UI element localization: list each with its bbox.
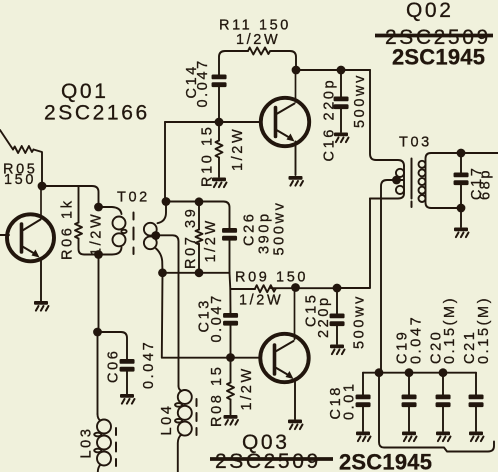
ground T03 secondary (454, 228, 469, 238)
svg-text:R07 39: R07 39 (183, 207, 199, 269)
node T02 primary bottom (94, 250, 103, 259)
resistor R11 (248, 48, 270, 55)
svg-text:R09 150: R09 150 (235, 270, 308, 286)
inductor L03 (98, 414, 101, 421)
node C15 (333, 284, 342, 293)
svg-text:1/2W: 1/2W (230, 127, 246, 171)
L04 core (196, 399, 198, 435)
wire T03 primary bottom to Q03 collector rail (337, 199, 370, 289)
svg-text:0.15(M): 0.15(M) (442, 296, 458, 364)
node C19 (405, 368, 414, 377)
ground C16 (334, 133, 349, 143)
wire T03 secondary top to right edge (461, 152, 498, 154)
transformer T03 secondary winding (426, 153, 462, 208)
node C14 / R10 (215, 118, 224, 127)
svg-text:Q01: Q01 (61, 80, 109, 103)
svg-text:500wv: 500wv (352, 294, 368, 349)
ground C18 (356, 432, 371, 442)
resistor R07 (198, 202, 200, 230)
T02 core (133, 213, 135, 255)
wire R06 top lead (78, 186, 80, 223)
wire R05 to collector node (34, 150, 43, 187)
svg-text:0.047: 0.047 (141, 340, 157, 389)
node R07 bottom (195, 268, 204, 277)
wire down to R09 tap and C13 (230, 273, 231, 313)
strike line Q03 (210, 457, 333, 461)
ground C21 (469, 432, 484, 442)
capacitor C17 (460, 153, 462, 173)
node C16 (337, 66, 346, 75)
ground Q02 emitter (289, 176, 304, 186)
wire R11 to Q02 collector node (271, 51, 296, 70)
wire T02 sec bottom down and right to Q03 base (162, 273, 261, 358)
svg-text:500wv: 500wv (272, 201, 288, 256)
capacitor C19 (408, 373, 410, 395)
resistor R10 (218, 122, 220, 141)
svg-text:0.01: 0.01 (342, 381, 358, 420)
capacitor C20 (442, 373, 444, 395)
svg-text:1/2W: 1/2W (236, 32, 280, 48)
svg-text:2SC1945: 2SC1945 (339, 450, 432, 472)
svg-text:C16 220p: C16 220p (322, 78, 338, 162)
capacitor C13 (223, 313, 238, 326)
wire bottom rail T02 sec bottom to C26/C13 (163, 272, 230, 274)
wire to T03 primary top (370, 70, 404, 166)
svg-text:1/2W: 1/2W (239, 293, 283, 309)
wire Q02 base rail (165, 121, 261, 123)
ground C15 (330, 345, 345, 355)
svg-text:0.047: 0.047 (409, 315, 425, 364)
svg-text:2SC1945: 2SC1945 (392, 45, 485, 70)
L03 core (115, 428, 117, 466)
svg-text:220p: 220p (316, 295, 332, 338)
svg-text:68p: 68p (478, 168, 494, 200)
node A rail: T02 sec top to R07 to C26 (166, 202, 230, 229)
node T03 center tap (392, 176, 401, 185)
node Q02 collector (292, 66, 301, 75)
svg-text:T03: T03 (399, 135, 432, 151)
svg-text:C06: C06 (106, 349, 122, 383)
capacitor C06 (120, 359, 135, 372)
svg-text:R06 1k: R06 1k (60, 198, 76, 260)
ground Q03 emitter (288, 420, 303, 430)
capacitor C18 (362, 373, 364, 395)
ground R10 (212, 178, 227, 188)
node Q03 collector (291, 283, 300, 292)
node C06 (93, 328, 102, 337)
transistor Q01 (0, 186, 54, 301)
svg-text:Q02: Q02 (406, 0, 454, 22)
svg-text:390p: 390p (257, 211, 273, 254)
node collector Q01 (38, 182, 47, 191)
transformer T03 primary winding (370, 166, 404, 199)
node bus left (375, 368, 384, 377)
svg-text:2SC2509: 2SC2509 (215, 450, 321, 472)
resistor R05 (13, 146, 34, 153)
transistor Q02 (261, 70, 309, 175)
svg-text:1/2W: 1/2W (89, 212, 105, 256)
ground C20 (436, 432, 451, 442)
wire node to T02 primary top (42, 186, 99, 207)
T03 core (411, 159, 413, 208)
wire C06 node down to L03 (97, 332, 99, 414)
capacitor C26 (222, 228, 237, 241)
wire supply feed bottom (379, 373, 494, 452)
inductor L04 (179, 386, 182, 391)
wire bus (363, 372, 476, 374)
transformer T02 secondary winding (158, 202, 167, 224)
resistor R09 (230, 288, 255, 290)
svg-text:150: 150 (4, 172, 36, 188)
svg-text:1/2W: 1/2W (239, 366, 255, 410)
svg-text:0.15(M): 0.15(M) (476, 296, 492, 364)
node T02 secondary center tap (151, 231, 160, 240)
resistor R08 (230, 358, 232, 383)
wire collector node to C16 to T03 (296, 69, 370, 71)
wire center tap to supply bus (381, 180, 403, 373)
svg-text:R10 15: R10 15 (200, 125, 216, 187)
svg-text:T02: T02 (117, 190, 150, 206)
transistor Q03 (260, 288, 308, 420)
node C17 bottom (457, 204, 466, 213)
node R07 top (195, 197, 204, 206)
node C20 (439, 368, 448, 377)
svg-text:500wv: 500wv (352, 73, 368, 128)
svg-text:L04: L04 (159, 404, 175, 436)
svg-text:C26: C26 (242, 212, 258, 246)
capacitor C16 (340, 70, 342, 97)
svg-text:R08 15: R08 15 (209, 365, 225, 427)
node C17 top (457, 149, 466, 158)
wire R06 bottom lead (79, 239, 99, 255)
wire base rail down to T02 secondary top (164, 122, 166, 202)
svg-text:2SC2166: 2SC2166 (44, 102, 150, 125)
ground C06 (120, 394, 135, 404)
svg-text:L03: L03 (79, 427, 95, 459)
wire input top-left diagonal (0, 130, 13, 150)
wire T02 primary bottom down to C06 node (98, 255, 100, 333)
node T02 secondary bottom (158, 268, 167, 277)
capacitor C21 (475, 373, 477, 395)
wire center tap to L04 (156, 235, 179, 386)
capacitor C14 (218, 87, 220, 122)
ground R08 (224, 415, 239, 425)
svg-text:0.047: 0.047 (209, 293, 225, 342)
strike line Q02 (375, 34, 493, 38)
node T02 secondary top (162, 197, 171, 206)
transformer T02 primary winding (99, 207, 122, 214)
svg-text:1/2W: 1/2W (203, 218, 219, 262)
capacitor C15 (336, 288, 338, 314)
wire C06 top lead (98, 332, 128, 359)
node Q03 base / R08 (226, 353, 235, 362)
resistor R06 (75, 223, 82, 239)
svg-text:0.047: 0.047 (195, 58, 211, 107)
ground Q01 emitter (34, 301, 49, 311)
node T02 primary top (94, 203, 103, 212)
ground C19 (402, 432, 417, 442)
